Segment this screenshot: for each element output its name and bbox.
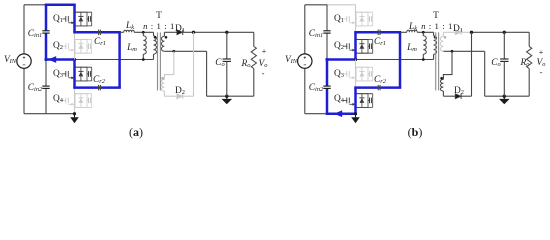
transistor Q1 (b) (344, 18, 347, 20)
wire Cin rail mid-lower (b) (326, 58, 329, 86)
wire output right lower (b) (528, 69, 530, 97)
wire output bottom (b) (485, 95, 530, 97)
wire Vin rail lower (b) (304, 68, 306, 113)
wire secondary1 top stub (a) (163, 32, 165, 36)
svg-text:-: - (262, 68, 265, 78)
wire primary bottom stub (b) (433, 54, 435, 59)
wire centre tap (a) (164, 50, 206, 52)
node bottom junction (b) (354, 112, 357, 115)
wire Lm top stub (a) (142, 32, 144, 36)
wire resonant node vertical (b) (399, 32, 402, 87)
capacitor CIN2 (a) (42, 85, 49, 87)
wire winding2 to D2 (a) (163, 91, 165, 96)
wire top rail Vin (b) (305, 4, 327, 6)
inductor Lm (b) (423, 36, 426, 54)
transistor Q2 (a) (63, 45, 66, 47)
wire Vin rail lower (a) (23, 68, 25, 113)
node output ground junction (a) (225, 95, 228, 98)
wire Lm top stub (b) (422, 32, 424, 36)
ground primary (b) (355, 114, 357, 118)
wire top rail bridge (b) (327, 4, 356, 6)
node Lm top junction (a) (142, 31, 145, 34)
wire output right (a) (253, 32, 255, 46)
polarity dot primary (a) (154, 36, 157, 39)
transistor Q2 (b) (344, 45, 347, 47)
wire Cin rail lower (a) (45, 88, 47, 114)
transformer T secondary winding 1 (a) (161, 36, 164, 51)
current arrow mid (a) (48, 56, 56, 63)
capacitor Cr2 (a) (98, 85, 100, 90)
capacitor CIN1 (b) (323, 30, 330, 32)
capacitor Cr1 (a) (98, 30, 100, 35)
wire Q2 channel (b) (354, 32, 357, 59)
transformer T primary winding (b) (434, 36, 437, 54)
ground output (a) (226, 96, 228, 99)
wire Cin rail lower (b) (326, 88, 329, 114)
node mid-left junction (a) (44, 58, 47, 61)
current arrow bottom (b) (334, 110, 342, 117)
wire secondary1 top stub (b) (442, 32, 444, 36)
wire Lm bottom stub (a) (142, 54, 144, 59)
wire Q1 channel (a) (73, 5, 76, 33)
wire primary bottom stub (a) (153, 54, 155, 59)
wire D2 up (a) (183, 95, 194, 97)
diode D2 (b) (455, 94, 461, 99)
transistor Q4 (b) (344, 99, 347, 101)
wire to Lk (b) (400, 31, 407, 33)
wire secondary1 to D1 (a) (164, 31, 176, 33)
transformer T secondary winding 1 (b) (440, 36, 443, 51)
diode D1 (a) (177, 30, 183, 35)
svg-text:(a): (a) (129, 125, 143, 139)
wire output bottom (a) (207, 95, 254, 97)
wire Co lower (b) (503, 61, 505, 96)
inductor Lk (b) (407, 30, 417, 32)
wire winding2 link (b) (443, 51, 452, 79)
wire Cr1 link (a) (73, 31, 121, 34)
wire centre tap down (a) (206, 51, 208, 96)
svg-text:n : 1 : 1: n : 1 : 1 (421, 21, 453, 31)
node mid-switch junction (a) (73, 58, 76, 61)
wire winding2 link (a) (164, 51, 173, 79)
inductor Lk (a) (124, 30, 134, 32)
polarity dot secondary1 (b) (444, 36, 447, 39)
svg-text:+: + (262, 46, 267, 56)
wire primary top stub (a) (153, 32, 155, 36)
wire output right (b) (528, 32, 530, 46)
polarity dot secondary1 (a) (165, 36, 168, 39)
transistor Q3 (b) (344, 73, 347, 75)
wire winding2 to D2 (b) (442, 91, 444, 96)
wire output right lower (a) (253, 69, 255, 97)
transformer T core (a) (157, 32, 159, 90)
wire Cin rail mid-lower (a) (45, 59, 47, 86)
capacitor Co (b) (500, 58, 508, 60)
capacitor CIN1 (a) (42, 30, 49, 32)
transformer T primary winding (a) (154, 36, 157, 54)
wire resonant node vertical (a) (118, 32, 121, 87)
diode D1 (b) (455, 30, 461, 35)
svg-text:+: + (539, 47, 544, 57)
wire mid rail left (a) (45, 58, 76, 61)
wire Cin rail mid-upper (b) (326, 33, 328, 60)
wire to Lk (a) (120, 31, 124, 33)
wire D2 up (b) (461, 95, 471, 97)
wire output top (a) (194, 31, 254, 33)
wire Lm bottom stub (b) (422, 54, 424, 59)
wire centre tap (b) (443, 50, 484, 52)
node output ground junction (b) (503, 95, 506, 98)
capacitor Co (a) (223, 58, 231, 60)
wire centre tap down (b) (484, 51, 486, 96)
node D-join (a) (192, 31, 195, 34)
svg-text:T: T (433, 11, 439, 21)
transistor Q4 (a) (63, 99, 66, 101)
wire Vin rail upper (b) (304, 5, 306, 54)
wire mid rail left (b) (326, 58, 357, 61)
wire Cin rail mid-upper (a) (45, 33, 48, 61)
wire Cr2 link (a) (73, 86, 121, 89)
voltage source VIN (b) (298, 54, 312, 68)
wire Lk to transformer (a) (134, 31, 153, 33)
polarity dot secondary2 (a) (161, 77, 164, 80)
node mid-left junction (b) (325, 58, 328, 61)
svg-text:(b): (b) (408, 125, 423, 139)
capacitor Cr2 (b) (377, 85, 379, 90)
wire bottom rail bridge (a) (46, 113, 75, 115)
node Lm bottom junction (a) (142, 58, 145, 61)
wire bottom rail (b) (305, 113, 327, 115)
transformer T secondary winding 2 (b) (440, 79, 443, 91)
node Co tee (a) (225, 31, 228, 34)
wire Cr1 link (b) (354, 31, 401, 34)
wire D1 to output (b) (461, 31, 471, 33)
svg-text:n : 1 : 1: n : 1 : 1 (143, 21, 175, 31)
svg-text:-: - (540, 67, 543, 77)
wire Lk to transformer (b) (417, 31, 433, 33)
node mid-switch junction (b) (354, 58, 357, 61)
node Lm top junction (b) (422, 31, 425, 34)
wire Q1 channel (b) (355, 5, 357, 33)
wire Q3 channel (b) (355, 60, 357, 88)
node bottom junction (a) (73, 112, 76, 115)
wire bottom rail (a) (24, 113, 46, 115)
wire mid rail right (b) (356, 59, 434, 61)
wire secondary1 to D1 (b) (443, 31, 455, 33)
polarity dot primary (b) (434, 36, 437, 39)
inductor Lm (a) (143, 36, 146, 54)
wire top rail Vin (a) (24, 4, 46, 6)
wire Vin rail upper (a) (23, 5, 25, 54)
wire Q2 channel (a) (74, 32, 76, 59)
wire Co upper (a) (226, 32, 228, 59)
wire output top (b) (472, 31, 530, 33)
wire D1 to output (a) (183, 31, 194, 33)
node centre tap junction (a) (172, 50, 175, 53)
transistor Q1 (a) (63, 18, 66, 20)
voltage source VIN (a) (17, 54, 31, 68)
ground primary (a) (74, 114, 76, 118)
wire Cr2 link (b) (354, 86, 401, 89)
wire mid rail right (a) (75, 59, 154, 61)
node D-join (b) (470, 31, 473, 34)
wire bottom rail bridge (b) (326, 112, 357, 115)
transistor Q3 (a) (63, 73, 66, 75)
diode D2 (a) (177, 94, 183, 99)
capacitor Cr1 (b) (377, 30, 379, 35)
wire Co lower (a) (226, 61, 228, 96)
node Co tee (b) (503, 31, 506, 34)
wire Q4 channel (b) (354, 88, 357, 114)
transformer T secondary winding 2 (a) (161, 79, 164, 91)
node centre tap junction (b) (451, 50, 454, 53)
transformer T core (b) (435, 32, 437, 90)
wire Cin rail upper (a) (45, 4, 48, 31)
ground output (b) (503, 96, 505, 99)
wire Cin rail upper (b) (326, 5, 328, 31)
wire Q4 channel (a) (74, 88, 76, 114)
node Lm bottom junction (b) (422, 58, 425, 61)
resistor Ro (a) (251, 46, 256, 68)
wire Co upper (b) (503, 32, 505, 59)
wire top rail bridge (a) (45, 4, 76, 7)
wire Q3 channel (a) (73, 60, 76, 88)
svg-text:T: T (156, 11, 162, 21)
polarity dot secondary2 (b) (440, 77, 443, 80)
capacitor CIN2 (b) (323, 85, 330, 87)
resistor Ro (b) (527, 46, 532, 68)
wire primary top stub (b) (433, 32, 435, 36)
